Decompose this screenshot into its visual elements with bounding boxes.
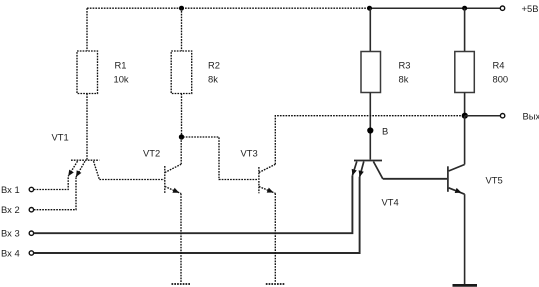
- svg-text:Вх 1: Вх 1: [1, 184, 20, 195]
- node output junction dot: [462, 113, 468, 119]
- resistor R2: [171, 51, 192, 94]
- svg-text:R4: R4: [493, 60, 505, 71]
- wire R1 top: [86, 8, 88, 51]
- svg-text:VT4: VT4: [382, 197, 399, 208]
- svg-text:VT3: VT3: [241, 148, 258, 159]
- svg-text:R1: R1: [115, 60, 127, 71]
- wire top supply rail (solid part): [369, 7, 500, 9]
- node junction dot R3 top: [367, 6, 372, 11]
- svg-text:800: 800: [493, 74, 509, 85]
- node junction dot R2 top: [179, 6, 184, 11]
- wire R2 top: [181, 8, 183, 51]
- svg-text:10k: 10k: [114, 74, 129, 85]
- svg-text:VT5: VT5: [486, 175, 503, 186]
- svg-text:VT1: VT1: [52, 132, 69, 143]
- node junction dot R4 top: [462, 6, 467, 11]
- svg-text:8k: 8k: [399, 74, 409, 85]
- svg-text:+5В: +5В: [522, 3, 539, 14]
- wire VT2 emitter down: [180, 194, 182, 283]
- wire VT1 collector to VT2 base: [99, 179, 164, 181]
- transistor VT2 (dashed): [165, 164, 181, 193]
- svg-text:Вх 3: Вх 3: [1, 228, 20, 239]
- svg-text:R2: R2: [208, 60, 220, 71]
- wire VT3 collector up and across to output node: [275, 116, 462, 165]
- wire VT5 collector up to output node: [464, 116, 466, 165]
- wire output node to terminal: [465, 115, 501, 117]
- svg-text:Вх 4: Вх 4: [1, 248, 20, 259]
- transistor VT4 (multi-emitter, solid): [352, 161, 382, 179]
- wire R1 bottom to VT1 base: [86, 94, 88, 161]
- transistor VT1 (multi-emitter, dashed): [68, 160, 99, 179]
- resistor R1: [77, 51, 98, 94]
- svg-text:8k: 8k: [208, 74, 218, 85]
- node B dot: [367, 127, 373, 133]
- svg-text:R3: R3: [399, 60, 411, 71]
- wire VT2 collector to node dot: [180, 137, 182, 164]
- wire node to VT3 base: [183, 137, 258, 180]
- transistor VT3 (dashed): [259, 164, 275, 193]
- resistor R3: [361, 52, 381, 93]
- wire R3 bottom to VT4 base: [369, 93, 371, 160]
- svg-text:Вх 2: Вх 2: [1, 204, 20, 215]
- wire R2 bottom to node: [181, 94, 183, 138]
- wire top supply rail (dashed part): [87, 7, 369, 9]
- terminal +5V circle: [500, 6, 504, 10]
- svg-text:Вых: Вых: [523, 111, 539, 122]
- wire R4 bottom to output node: [464, 93, 466, 116]
- svg-text:B: B: [382, 126, 388, 137]
- terminal output circle: [500, 114, 504, 118]
- transistor VT5 (solid): [448, 165, 465, 195]
- wire VT3 emitter down: [274, 193, 276, 282]
- ground bar under VT3: [266, 283, 285, 285]
- wire R3 top: [369, 8, 371, 51]
- wire VT4 collector to VT5 base: [383, 178, 447, 180]
- ground bar under VT5: [453, 284, 478, 287]
- node junction dot R2 bottom: [179, 134, 184, 139]
- ground bar under VT2: [172, 283, 191, 285]
- svg-text:VT2: VT2: [143, 148, 160, 159]
- resistor R4: [455, 52, 475, 93]
- wire R4 top: [464, 8, 466, 51]
- wire VT5 emitter down to ground: [464, 194, 466, 284]
